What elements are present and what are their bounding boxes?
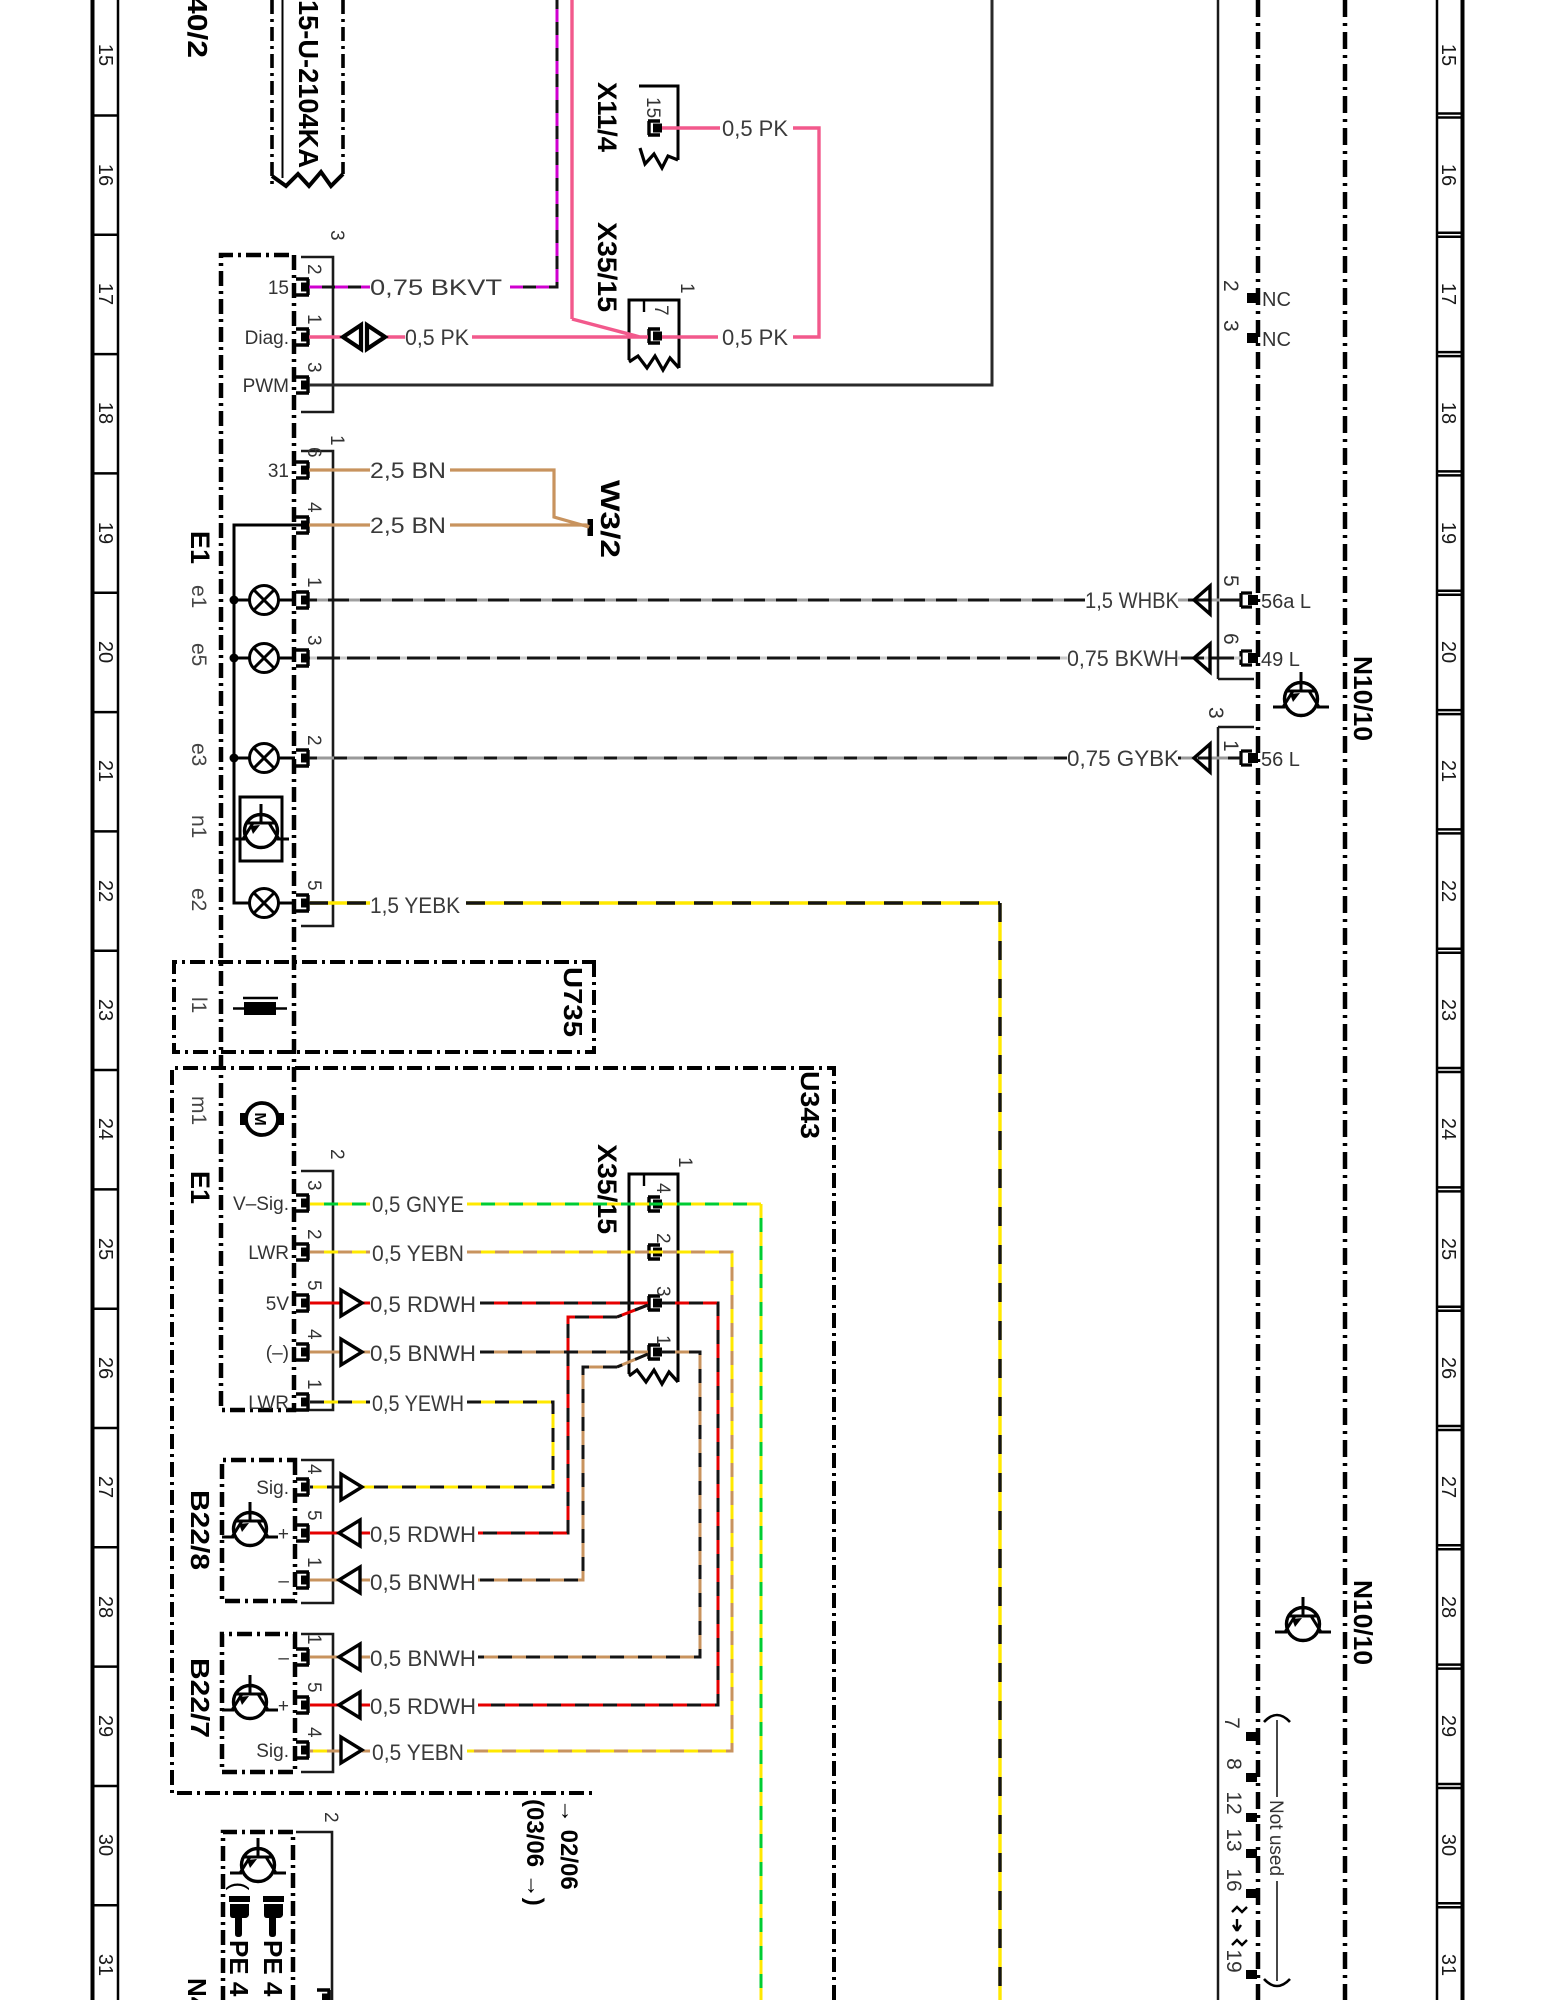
svg-text:NC: NC bbox=[1262, 329, 1291, 351]
wire 0,75 GYBK base bbox=[309, 757, 1241, 760]
wire 0,5 RDWH base bbox=[478, 1303, 718, 1705]
not-used pins 7 8 12 13 16 19 bbox=[1246, 1732, 1257, 1979]
svg-text:8: 8 bbox=[1222, 1758, 1245, 1770]
connector strip 3 on E1 bbox=[301, 257, 333, 412]
svg-text:2: 2 bbox=[320, 1812, 341, 1823]
junction dots bbox=[230, 596, 239, 605]
pin B22/8 -/1 bbox=[296, 1572, 309, 1588]
svg-text:+: + bbox=[278, 1524, 289, 1545]
transistor symbol in N10/10 left bbox=[1273, 672, 1329, 716]
svg-text:23: 23 bbox=[94, 999, 116, 1021]
svg-text:23: 23 bbox=[1437, 999, 1459, 1021]
wire 0,75 BKVT violet dashes bbox=[309, 0, 557, 287]
component B22/7 dash-dot box bbox=[222, 1634, 295, 1772]
motor m1 bbox=[246, 1103, 278, 1135]
bottom ruler inner line bbox=[117, 0, 120, 2000]
svg-text:2: 2 bbox=[326, 1149, 347, 1160]
pin 2 NC bbox=[1247, 293, 1258, 303]
svg-text:l1: l1 bbox=[187, 997, 210, 1013]
pin on N4 strip (cut at corner) bbox=[317, 1990, 330, 2000]
svg-text:13: 13 bbox=[1222, 1828, 1245, 1851]
connector X35/15 (bottom) torn edge bbox=[629, 1370, 678, 1384]
svg-text:Sig.: Sig. bbox=[256, 1478, 289, 1499]
pin 7 on X35/15 top bbox=[648, 329, 662, 343]
svg-text:0,5 GNYE: 0,5 GNYE bbox=[372, 1192, 464, 1217]
pin 1 on X35/15 bottom bbox=[648, 1345, 662, 1359]
svg-text:m1: m1 bbox=[187, 1096, 210, 1125]
pin 1 56 L bbox=[1241, 751, 1258, 765]
svg-text:0,5 RDWH: 0,5 RDWH bbox=[370, 1522, 476, 1547]
wire BNWH brown stubs bbox=[310, 1352, 370, 1657]
svg-text:28: 28 bbox=[94, 1596, 116, 1618]
svg-text:e2: e2 bbox=[187, 888, 210, 911]
component U343 dash-dot box bbox=[172, 1068, 834, 2000]
harness label box torn zigzag edge bbox=[272, 172, 343, 186]
arrow down at B22/7 - bbox=[339, 1644, 360, 1670]
svg-text:19: 19 bbox=[94, 522, 116, 544]
connector bracket stubs on N10/10 bbox=[1218, 679, 1254, 727]
pin 3 NC bbox=[1247, 333, 1258, 343]
svg-text:0,5 BNWH: 0,5 BNWH bbox=[370, 1570, 476, 1595]
pin B22/8 +/5 bbox=[296, 1525, 309, 1541]
svg-text:NC: NC bbox=[1262, 289, 1291, 311]
wire RDWH red stubs bbox=[310, 1303, 370, 1705]
connector strip 2 on E1 bbox=[301, 1171, 333, 1410]
svg-text:7: 7 bbox=[1220, 1717, 1243, 1729]
svg-text:5: 5 bbox=[303, 1280, 324, 1291]
svg-text:30: 30 bbox=[94, 1834, 116, 1856]
svg-text:1: 1 bbox=[303, 1634, 324, 1645]
svg-text:24: 24 bbox=[1437, 1118, 1459, 1140]
connector X11/4 body bbox=[639, 86, 678, 160]
svg-text:16: 16 bbox=[1437, 164, 1459, 186]
svg-text:3: 3 bbox=[303, 362, 324, 373]
svg-text:19: 19 bbox=[1437, 522, 1459, 544]
svg-text:6: 6 bbox=[303, 447, 324, 458]
svg-text:4: 4 bbox=[303, 1464, 324, 1475]
module N10/10 outer dash-dot border bbox=[1343, 0, 1348, 2000]
pin 3 on X35/15 bottom bbox=[648, 1296, 662, 1310]
svg-text:1,5 WHBK: 1,5 WHBK bbox=[1085, 588, 1179, 613]
wire PWM black bbox=[309, 0, 992, 385]
harness label box inner line bbox=[282, 0, 284, 178]
svg-text:0,75 GYBK: 0,75 GYBK bbox=[1067, 746, 1179, 771]
svg-text:17: 17 bbox=[1437, 283, 1459, 305]
top ruler cells bbox=[1437, 114, 1461, 1908]
lamp e3 bbox=[234, 744, 295, 773]
svg-text:0,5 PK: 0,5 PK bbox=[405, 325, 469, 350]
pointing hand symbol row 1 bbox=[263, 1896, 284, 1937]
pin (-)/4 bbox=[296, 1344, 309, 1360]
pin B22/7 -/1 bbox=[296, 1649, 309, 1665]
bottom ruler numbers 15-31 bbox=[94, 44, 116, 1976]
component U735 dash-dot box bbox=[174, 962, 594, 1052]
svg-text:3: 3 bbox=[1204, 707, 1227, 719]
svg-text:+: + bbox=[278, 1696, 289, 1717]
svg-text:28: 28 bbox=[1437, 1596, 1459, 1618]
wire 0,5 BNWH base bbox=[478, 1352, 700, 1657]
component B22/8 dash-dot box bbox=[222, 1460, 295, 1601]
pin 15/2 bbox=[296, 279, 309, 295]
not used dimension with braces bbox=[1264, 1715, 1290, 1722]
svg-text:1: 1 bbox=[303, 1557, 324, 1568]
svg-text:20: 20 bbox=[94, 641, 116, 663]
connector separation bowtie symbol (Diag) bbox=[367, 325, 385, 349]
connector X35/15 (bottom) key mark bbox=[643, 1174, 645, 1186]
svg-text:3: 3 bbox=[652, 1286, 673, 1297]
pin numbers on E1 connectors bbox=[303, 264, 324, 1738]
sensor symbol in B22/7 bbox=[222, 1675, 278, 1719]
svg-text:0,75 BKWH: 0,75 BKWH bbox=[1067, 646, 1179, 671]
svg-text:26: 26 bbox=[94, 1357, 116, 1379]
svg-text:0,5 RDWH: 0,5 RDWH bbox=[370, 1694, 476, 1719]
pin 15 on X11/4 bbox=[648, 121, 662, 135]
svg-text:29: 29 bbox=[94, 1715, 116, 1737]
arrow down at B22/8 - bbox=[339, 1567, 360, 1593]
connector X35/15 (bottom) body bbox=[629, 1174, 678, 1382]
pin LWR/1 bbox=[296, 1394, 309, 1410]
svg-text:56a L: 56a L bbox=[1261, 591, 1311, 613]
pin e5/3 bbox=[296, 650, 309, 666]
top ruler inner line bbox=[1436, 0, 1439, 2000]
wire 1,5 WHBK black dashes bbox=[309, 599, 1241, 602]
lamp e5 bbox=[234, 644, 295, 673]
svg-text:n1: n1 bbox=[187, 815, 210, 838]
pin Diag/1 bbox=[296, 329, 309, 345]
arrow up at B22/8 Sig bbox=[341, 1474, 362, 1500]
pin 5 56a L bbox=[1241, 593, 1258, 607]
svg-text:15: 15 bbox=[268, 278, 289, 299]
svg-text:N4: N4 bbox=[182, 1978, 212, 2000]
svg-text:3: 3 bbox=[303, 1180, 324, 1191]
svg-text:2: 2 bbox=[303, 264, 324, 275]
E1 internal bus wire bbox=[234, 525, 302, 903]
svg-text:0,75 BKVT: 0,75 BKVT bbox=[370, 275, 502, 300]
pin 2 on X35/15 bottom bbox=[648, 1245, 662, 1259]
svg-text:29: 29 bbox=[1437, 1715, 1459, 1737]
svg-text:4: 4 bbox=[303, 1727, 324, 1738]
svg-text:21: 21 bbox=[94, 760, 116, 782]
svg-text:LWR: LWR bbox=[248, 1243, 289, 1264]
wire 1,5 YEBK base bbox=[309, 903, 1000, 2000]
arrow up at B22/7 Sig bbox=[341, 1737, 362, 1763]
svg-text:E1: E1 bbox=[185, 1171, 215, 1204]
svg-text:15-U-2104KA: 15-U-2104KA bbox=[293, 0, 324, 168]
component E1 dash-dot box bbox=[221, 255, 294, 1410]
svg-text:–: – bbox=[278, 1648, 289, 1669]
connector strip on N4 bbox=[296, 1832, 332, 2000]
wire 1,5 YEBK black dashes bbox=[309, 903, 1000, 2000]
svg-text:21: 21 bbox=[1437, 760, 1459, 782]
svg-text:U343: U343 bbox=[795, 1071, 825, 1139]
svg-text:49 L: 49 L bbox=[1261, 649, 1300, 671]
svg-text:20: 20 bbox=[1437, 641, 1459, 663]
transistor symbol in N10/10 right bbox=[1275, 1597, 1331, 1641]
svg-text:0,5 YEWH: 0,5 YEWH bbox=[372, 1391, 464, 1416]
wire 0,5 YEWH black dashes bbox=[310, 1402, 553, 1487]
svg-text:4: 4 bbox=[303, 1329, 324, 1340]
svg-text:3: 3 bbox=[326, 230, 347, 241]
svg-text:3: 3 bbox=[1219, 320, 1242, 332]
svg-text:Not used: Not used bbox=[1265, 1800, 1286, 1876]
svg-text:→ 02/06: → 02/06 bbox=[555, 1799, 582, 1890]
arrow down on WHBK at N10/10 bbox=[1194, 586, 1210, 614]
sensor symbol in B22/8 bbox=[222, 1502, 278, 1546]
arrow down on BKWH at N10/10 bbox=[1194, 644, 1210, 672]
svg-text:X35/15: X35/15 bbox=[592, 1144, 622, 1234]
wire 2,5 BN (4) bbox=[309, 525, 589, 527]
svg-text:27: 27 bbox=[1437, 1476, 1459, 1498]
svg-text:e1: e1 bbox=[187, 585, 210, 608]
svg-text:e3: e3 bbox=[187, 743, 210, 766]
pin 4 bbox=[296, 517, 309, 533]
svg-text:5: 5 bbox=[303, 880, 324, 891]
svg-text:(–): (–) bbox=[266, 1343, 289, 1364]
svg-text:1,5 YEBK: 1,5 YEBK bbox=[370, 893, 460, 918]
pin e3/2 bbox=[296, 750, 309, 766]
svg-text:V–Sig.: V–Sig. bbox=[233, 1194, 289, 1215]
svg-text:N10/10: N10/10 bbox=[1348, 656, 1378, 741]
svg-text:N10/10: N10/10 bbox=[1348, 1580, 1378, 1665]
svg-text:(03/06 →): (03/06 →) bbox=[521, 1799, 548, 1906]
pin LWR/2 bbox=[296, 1244, 309, 1260]
svg-text:25: 25 bbox=[94, 1238, 116, 1260]
pin V-Sig/3 bbox=[296, 1195, 309, 1211]
wire 1,5 WHBK base bbox=[309, 599, 1241, 602]
wire 0,75 BKWH base bbox=[309, 657, 1241, 660]
svg-text:16: 16 bbox=[94, 164, 116, 186]
lamp e1 bbox=[234, 586, 295, 615]
pin PWM/3 bbox=[296, 377, 309, 393]
connector X35/15 (top) body bbox=[629, 300, 679, 368]
svg-text:15: 15 bbox=[1437, 44, 1459, 66]
top ruler numbers 15-31 bbox=[1437, 44, 1459, 1976]
component N4 dash-dot box (cut at page edge) bbox=[223, 1832, 293, 2000]
svg-text:6: 6 bbox=[1219, 633, 1242, 645]
svg-text:Diag.: Diag. bbox=[245, 328, 289, 349]
svg-text:27: 27 bbox=[94, 1476, 116, 1498]
svg-text:18: 18 bbox=[94, 402, 116, 424]
arrow down on GYBK at N10/10 bbox=[1194, 744, 1210, 772]
wire 0,5 PK diag branch bbox=[309, 0, 819, 337]
svg-text:7: 7 bbox=[650, 305, 671, 316]
pointing hand symbol row 2 bbox=[229, 1896, 250, 1937]
svg-text:17: 17 bbox=[94, 283, 116, 305]
svg-text:1: 1 bbox=[652, 1335, 673, 1346]
svg-text:W3/2: W3/2 bbox=[595, 480, 625, 558]
svg-text:0,5 YEBN: 0,5 YEBN bbox=[372, 1740, 464, 1765]
connector strip on B22/8 bbox=[301, 1460, 333, 1603]
wire 0,75 BKVT base bbox=[309, 0, 557, 287]
svg-text:26: 26 bbox=[1437, 1357, 1459, 1379]
wire 2,5 BN (31) bbox=[309, 470, 589, 527]
svg-text:B22/7: B22/7 bbox=[185, 1658, 215, 1738]
wire 0,75 BKWH white dashes bbox=[309, 657, 1241, 660]
pin 6 49 L bbox=[1241, 651, 1258, 665]
svg-text:2: 2 bbox=[1219, 280, 1242, 292]
harness label box .15-U-2104KA dash-dot borders bbox=[341, 0, 345, 174]
svg-text:2,5 BN: 2,5 BN bbox=[370, 513, 446, 538]
pin 5V/5 bbox=[296, 1295, 309, 1311]
wire 0,5 YEBN brown dashes bbox=[310, 1252, 732, 1751]
module N10/10 inner dash-dot border (pin line) bbox=[1256, 0, 1261, 2000]
wire 0,5 GNYE base bbox=[310, 1204, 761, 2000]
svg-text:5: 5 bbox=[1219, 575, 1242, 587]
svg-text:2,5 BN: 2,5 BN bbox=[370, 458, 446, 483]
pin e1/1 bbox=[296, 592, 309, 608]
lamp labels e1 e5 e3 n1 e2 l1 m1 bbox=[187, 585, 210, 1125]
wire 0,5 GNYE yellow dashes bbox=[310, 1204, 761, 2000]
svg-text:1: 1 bbox=[303, 577, 324, 588]
bottom ruler outer page border bbox=[91, 0, 95, 2000]
wire 0,75 GYBK black dashes bbox=[309, 757, 1241, 760]
bottom ruler cell separators bbox=[92, 116, 118, 1906]
connector X11/4 torn edge bbox=[640, 148, 678, 168]
wire 0,5 BNWH black dashes bbox=[478, 1352, 700, 1657]
svg-text:0,5 PK: 0,5 PK bbox=[722, 325, 788, 350]
svg-text:PE 4: PE 4 bbox=[224, 1940, 254, 1997]
svg-text:e5: e5 bbox=[187, 643, 210, 666]
svg-text:56 L: 56 L bbox=[1261, 749, 1300, 771]
svg-text:5: 5 bbox=[303, 1510, 324, 1521]
svg-text:5V: 5V bbox=[266, 1294, 290, 1315]
arrow down at B22/7 + bbox=[339, 1692, 360, 1718]
svg-text:31: 31 bbox=[94, 1954, 116, 1976]
svg-text:B22/8: B22/8 bbox=[185, 1490, 215, 1570]
pin 4 on X35/15 bottom bbox=[648, 1197, 662, 1211]
svg-text:22: 22 bbox=[94, 880, 116, 902]
wire 0,5 YEWH base bbox=[310, 1402, 553, 1487]
svg-text:1: 1 bbox=[303, 1379, 324, 1390]
wire 0,5 RDWH black dashes bbox=[478, 1303, 718, 1705]
gauge n1 symbol bbox=[233, 804, 289, 848]
svg-text:5: 5 bbox=[303, 1682, 324, 1693]
svg-text:19: 19 bbox=[1222, 1949, 1245, 1972]
pin e2/5 bbox=[296, 895, 309, 911]
svg-text:30: 30 bbox=[1437, 1834, 1459, 1856]
svg-text:0,5 BNWH: 0,5 BNWH bbox=[370, 1341, 476, 1366]
gauge n1 box bbox=[240, 797, 282, 861]
illumination l1 symbol bbox=[244, 1002, 276, 1015]
pin 31/6 bbox=[296, 462, 309, 478]
arrow up at E1 (-) bbox=[341, 1339, 362, 1365]
svg-text:1: 1 bbox=[326, 435, 347, 446]
svg-text:–: – bbox=[278, 1571, 289, 1592]
squiggle arrow between pins 16 and 19 bbox=[1232, 1907, 1247, 1912]
arrow up at E1 5V bbox=[341, 1290, 362, 1316]
svg-text:0,5 PK: 0,5 PK bbox=[722, 116, 788, 141]
svg-text:3: 3 bbox=[303, 635, 324, 646]
svg-text:PE 4: PE 4 bbox=[258, 1940, 288, 1997]
arrow down at B22/8 + bbox=[339, 1520, 360, 1546]
connector strip 1 on E1 bbox=[301, 451, 333, 926]
svg-text:18: 18 bbox=[1437, 402, 1459, 424]
top ruler outer page border bbox=[1461, 0, 1465, 2000]
svg-text:0,5 RDWH: 0,5 RDWH bbox=[370, 1292, 476, 1317]
connector X35/15 (top) torn edge bbox=[629, 356, 679, 370]
pin B22/7 +/5 bbox=[296, 1697, 309, 1713]
ground W3/2 bar bbox=[588, 519, 594, 536]
svg-text:31: 31 bbox=[1437, 1954, 1459, 1976]
svg-text:2: 2 bbox=[303, 1229, 324, 1240]
pin B22/7 Sig/4 bbox=[296, 1742, 309, 1758]
svg-text:12: 12 bbox=[1222, 1791, 1245, 1814]
svg-text:0,5 BNWH: 0,5 BNWH bbox=[370, 1646, 476, 1671]
svg-text:2: 2 bbox=[303, 735, 324, 746]
svg-text:E1: E1 bbox=[185, 531, 215, 564]
pin numbers on X35/15 bottom bbox=[652, 1183, 673, 1346]
sensor symbol in N4 bbox=[230, 1838, 286, 1882]
svg-text:15: 15 bbox=[94, 44, 116, 66]
svg-text:Sig.: Sig. bbox=[256, 1741, 289, 1762]
svg-text:4: 4 bbox=[652, 1183, 673, 1194]
svg-text:40/2: 40/2 bbox=[182, 0, 213, 58]
svg-text:X35/15: X35/15 bbox=[592, 222, 622, 312]
connector strip on B22/7 bbox=[301, 1634, 333, 1772]
svg-text:1: 1 bbox=[676, 283, 697, 294]
connector X35/15 (top) key mark bbox=[643, 300, 645, 312]
module N10/10 solid pin-strip line bbox=[1217, 0, 1220, 2000]
wire 0,5 YEBN base bbox=[310, 1252, 732, 1751]
svg-text:1: 1 bbox=[674, 1157, 695, 1168]
svg-text:22: 22 bbox=[1437, 880, 1459, 902]
svg-text:(: ( bbox=[225, 1882, 253, 1891]
lamp e2 bbox=[234, 889, 295, 918]
svg-text:4: 4 bbox=[303, 502, 324, 513]
svg-text:U735: U735 bbox=[558, 967, 588, 1037]
svg-text:M: M bbox=[251, 1112, 268, 1125]
svg-text:2: 2 bbox=[652, 1233, 673, 1244]
svg-text:X11/4: X11/4 bbox=[592, 82, 622, 152]
svg-text:16: 16 bbox=[1222, 1868, 1245, 1891]
svg-text:24: 24 bbox=[94, 1118, 116, 1140]
svg-text:0,5 YEBN: 0,5 YEBN bbox=[372, 1241, 464, 1266]
svg-text:1: 1 bbox=[303, 314, 324, 325]
svg-text:LWR: LWR bbox=[248, 1393, 289, 1414]
pin B22/8 Sig/4 bbox=[296, 1479, 309, 1495]
svg-text:PWM: PWM bbox=[243, 376, 289, 397]
svg-text:15: 15 bbox=[642, 97, 663, 118]
svg-text:1: 1 bbox=[1219, 740, 1242, 752]
svg-text:25: 25 bbox=[1437, 1238, 1459, 1260]
svg-text:31: 31 bbox=[268, 461, 289, 482]
